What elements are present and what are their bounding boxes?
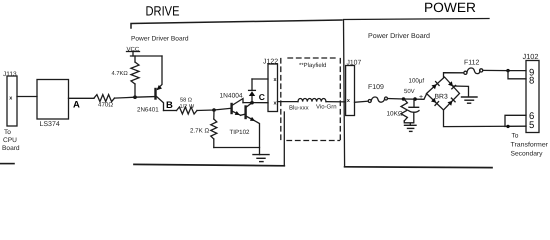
svg-text:J122: J122 xyxy=(263,59,278,66)
wire LS374 to 470 xyxy=(69,97,95,99)
edge wire stub bottom-left xyxy=(0,163,14,165)
svg-text:POWER: POWER xyxy=(424,0,476,15)
svg-text:470Ω: 470Ω xyxy=(98,102,113,109)
wire bridge to J102 pin5 xyxy=(444,110,527,127)
svg-text:x: x xyxy=(274,77,277,83)
diode 1N4004 xyxy=(251,96,253,103)
wire F109 to bridge xyxy=(388,94,427,99)
svg-text:5: 5 xyxy=(529,120,534,131)
svg-text:**Playfield: **Playfield xyxy=(299,62,326,69)
svg-text:50V: 50V xyxy=(404,88,415,95)
bridge diode LR xyxy=(448,101,453,106)
ground (TIP102 emitter) xyxy=(253,154,269,156)
bridge diode UR xyxy=(448,81,453,86)
wire vcc to emitter xyxy=(158,56,163,89)
resistor 4.7K ohm xyxy=(134,56,136,62)
vcc rail wire xyxy=(131,55,163,57)
connector J107 xyxy=(346,66,355,116)
svg-text:LS374: LS374 xyxy=(40,121,60,128)
svg-text:Vio-Grn: Vio-Grn xyxy=(316,104,337,111)
stub to pin 6 xyxy=(505,115,526,126)
svg-text:Power Driver Board: Power Driver Board xyxy=(131,36,189,43)
svg-text:Blu-xxx: Blu-xxx xyxy=(289,104,309,111)
svg-text:+: + xyxy=(419,94,423,101)
svg-text:2.7K Ω: 2.7K Ω xyxy=(190,127,209,134)
wire diode to J122 pin1 xyxy=(252,78,268,80)
svg-text:x: x xyxy=(274,101,277,107)
wire bridge to F112 xyxy=(444,73,464,77)
resistor 470 ohm xyxy=(94,95,115,102)
bridge diode UL xyxy=(432,84,437,89)
svg-text:A: A xyxy=(73,100,80,111)
resistor 2.7K ohm xyxy=(213,110,215,119)
stub to pin 8 xyxy=(508,71,526,79)
svg-text:B: B xyxy=(166,100,173,111)
svg-text:1/2 W: 1/2 W xyxy=(180,103,195,110)
svg-text:100µf: 100µf xyxy=(409,77,425,84)
node C wire xyxy=(243,102,268,104)
ground (filter) xyxy=(405,124,417,126)
svg-text:J107: J107 xyxy=(347,60,362,67)
svg-text:F109: F109 xyxy=(368,84,384,91)
wire 2.7K to ground rail xyxy=(214,147,260,149)
wire J107 to F109 xyxy=(355,101,369,102)
svg-text:x: x xyxy=(347,98,350,104)
wire J113 to LS374 xyxy=(17,96,37,98)
svg-text:J113: J113 xyxy=(3,71,17,78)
transistor Q1 2N6401 xyxy=(154,89,156,99)
svg-text:x: x xyxy=(9,96,12,102)
resistor 10K ohm xyxy=(401,99,407,121)
connector J113 xyxy=(7,76,17,126)
svg-text:CPU: CPU xyxy=(3,137,17,144)
svg-text:Secondary: Secondary xyxy=(511,150,544,157)
ground (bridge) xyxy=(453,86,469,97)
IC LS374 xyxy=(37,80,69,120)
wire 58ohm to TIP102 base xyxy=(197,108,231,110)
drive board outline xyxy=(131,20,342,28)
wire coil to J107 xyxy=(326,101,346,103)
capacitor 100uF 50V xyxy=(413,99,415,107)
fuse F109 xyxy=(368,100,371,103)
svg-text:To: To xyxy=(4,129,11,136)
svg-text:C: C xyxy=(259,92,265,102)
connector J102 xyxy=(526,61,539,133)
svg-text:2N6401: 2N6401 xyxy=(137,106,159,113)
resistor 58 ohm 1/2W xyxy=(164,110,177,112)
wire J122 to coil xyxy=(278,101,299,103)
connector J122 xyxy=(268,64,278,112)
svg-text:F112: F112 xyxy=(464,60,480,67)
wire 470 to base junction xyxy=(115,97,155,99)
svg-text:BR3: BR3 xyxy=(435,93,448,100)
junction dot xyxy=(133,95,137,99)
wire F112 to J102 pin9 xyxy=(483,69,526,71)
transistor Q2 TIP102 darlington xyxy=(230,104,232,113)
svg-text:DRIVE: DRIVE xyxy=(146,4,180,19)
fuse F112 xyxy=(464,71,467,74)
power board outline xyxy=(344,19,490,167)
svg-text:1N4004: 1N4004 xyxy=(220,92,243,99)
coil (solenoid) xyxy=(298,98,326,101)
svg-text:Board: Board xyxy=(2,145,20,152)
bridge rectifier BR3 xyxy=(427,77,460,110)
svg-text:Power Driver Board: Power Driver Board xyxy=(368,32,430,40)
svg-text:TIP102: TIP102 xyxy=(230,129,251,136)
svg-text:10KΩ: 10KΩ xyxy=(387,110,403,117)
svg-text:4.7KΩ: 4.7KΩ xyxy=(112,70,129,77)
bridge diode LL xyxy=(431,98,436,103)
svg-text:J102: J102 xyxy=(523,52,539,61)
svg-text:58 Ω: 58 Ω xyxy=(180,97,192,103)
svg-text:Transformer: Transformer xyxy=(511,141,549,148)
svg-text:To: To xyxy=(512,133,519,140)
playfield dashed box xyxy=(281,58,341,141)
svg-text:8: 8 xyxy=(529,76,534,87)
wire cap/10K join xyxy=(404,123,413,125)
